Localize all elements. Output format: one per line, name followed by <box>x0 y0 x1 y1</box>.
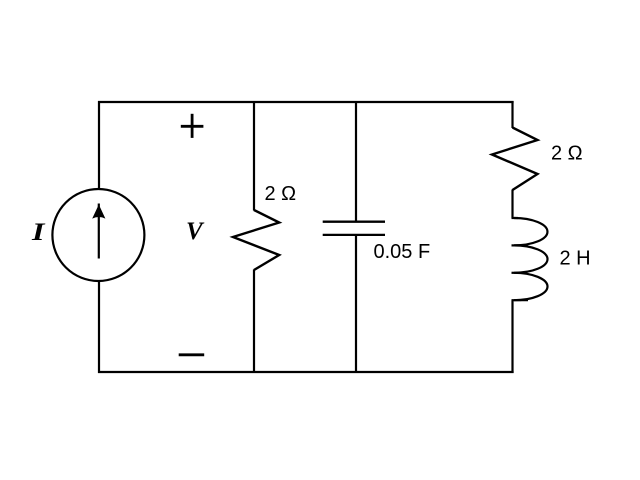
svg-text:0.05 F: 0.05 F <box>374 241 431 263</box>
polarity plus sign <box>181 114 204 138</box>
wire resistor branch upper <box>253 101 255 211</box>
current source I <box>52 189 144 281</box>
wire between resistor and inductor <box>511 190 513 219</box>
resistor 2ohm right <box>492 128 538 191</box>
svg-text:I: I <box>31 218 45 246</box>
svg-text:2 H: 2 H <box>560 248 591 270</box>
wire capacitor branch lower <box>355 235 357 373</box>
wire top rail <box>98 101 514 103</box>
wire bottom rail <box>98 371 514 373</box>
wire right branch bottom <box>511 300 513 373</box>
svg-text:2 Ω: 2 Ω <box>551 143 583 165</box>
svg-text:V: V <box>186 218 205 245</box>
wire left branch upper <box>98 101 100 190</box>
svg-text:2 Ω: 2 Ω <box>265 183 297 205</box>
wire resistor branch lower <box>253 270 255 374</box>
inductor 2H <box>512 218 548 300</box>
wire left branch lower <box>98 281 100 373</box>
wire capacitor branch upper <box>355 101 357 222</box>
polarity minus sign <box>179 353 205 356</box>
resistor 2ohm middle <box>233 210 279 270</box>
capacitor 0.05F <box>323 222 385 235</box>
wire right branch top <box>511 101 513 128</box>
